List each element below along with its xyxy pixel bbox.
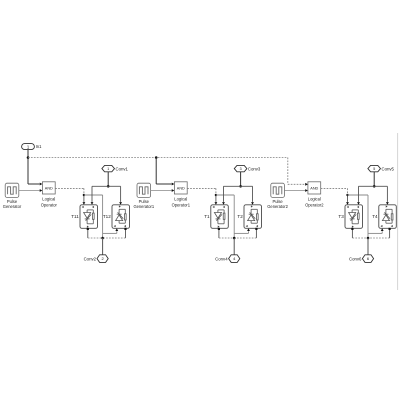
svg-text:Conv1: Conv1 <box>116 166 129 171</box>
pin arrow AND input 1 <box>40 183 43 186</box>
wire AND output gate net unit1 <box>55 188 84 202</box>
label Logical Operator2 <box>305 196 324 207</box>
wire bus down to Logical Operator2 dashed <box>287 158 289 185</box>
node gate junction unit3 <box>346 194 348 196</box>
pin arrow gate into T12 bottom <box>115 228 118 231</box>
svg-text:In1: In1 <box>36 144 42 149</box>
svg-text:Conv2: Conv2 <box>84 256 97 261</box>
wire Conv5 to T4 top <box>374 186 387 202</box>
node junction bottom rail unit2 <box>233 237 236 240</box>
wire In1 bus dashed horizontal <box>28 157 288 159</box>
wire T11 bottom to rail <box>87 230 89 238</box>
wire bus down to Logical Operator1 <box>155 158 157 185</box>
wire T3 bottom to rail <box>351 230 353 238</box>
pulse generator Pulse Generator2 <box>271 183 285 197</box>
wire bottom rail left unit2 <box>219 237 234 239</box>
wire gate branch to T4 <box>348 195 383 238</box>
pin arrow gate into T2 bottom <box>247 228 250 231</box>
wire Conv5 to T3 top <box>359 186 375 202</box>
wire T12 bottom to rail <box>125 230 127 238</box>
pin arrow gate into T11 <box>83 202 86 205</box>
wire Pulse Generator1 output to AND input 2 <box>151 190 172 192</box>
svg-text:Operator1: Operator1 <box>172 202 191 207</box>
svg-text:T2: T2 <box>237 214 243 219</box>
transistor T3 <box>345 205 363 229</box>
op-amp AND gate Logical Operator <box>42 182 55 194</box>
node junction Conv5 <box>373 185 376 188</box>
wire rail down to Conv2 <box>102 238 104 255</box>
wire In1 down to AND input <box>27 150 29 184</box>
svg-text:T11: T11 <box>71 214 79 219</box>
pin T2 port <box>255 228 257 230</box>
wire bottom rail left unit1 <box>88 237 103 239</box>
transistor T11 <box>80 205 98 229</box>
svg-text:Generator2: Generator2 <box>267 204 288 209</box>
pin T11 emitter port <box>87 228 89 230</box>
pin arrow gate into T4 bottom <box>381 228 384 231</box>
port Conv4 <box>229 255 240 263</box>
wire Pulse Generator output to AND input 2 <box>19 190 40 192</box>
pin arrow AND input 1 <box>172 183 175 186</box>
wire AND output gate net unit3 <box>321 188 348 202</box>
svg-text:Conv4: Conv4 <box>215 256 228 261</box>
wire gate branch to T2 <box>216 195 249 238</box>
label Pulse Generator <box>3 199 22 209</box>
wire T1 bottom to rail <box>218 230 220 238</box>
svg-text:Conv5: Conv5 <box>382 166 395 171</box>
label Pulse Generator2 <box>267 199 288 209</box>
wire bottom rail left unit3 <box>352 237 368 239</box>
wire Conv3 down <box>240 172 242 187</box>
pin T1 emitter port <box>218 228 220 230</box>
pin T12 port <box>124 228 126 230</box>
transistor T1 <box>211 205 229 229</box>
svg-text:T12: T12 <box>103 214 111 219</box>
svg-text:AND: AND <box>177 186 185 190</box>
node gate junction unit2 <box>215 194 217 196</box>
port Conv2 <box>97 255 108 263</box>
port Conv6 <box>362 255 373 263</box>
wire Conv1 down <box>107 172 109 187</box>
pulse generator Pulse Generator1 <box>137 183 151 197</box>
node junction Conv3 <box>239 185 242 188</box>
pin arrow gate into T1 <box>215 202 218 205</box>
wire Pulse Generator2 output to AND input 2 <box>284 190 305 192</box>
wire In1 to Logical Operator input 1 <box>28 183 39 185</box>
wire AND output gate net unit2 <box>187 188 216 202</box>
svg-text:AND: AND <box>310 186 318 190</box>
label Logical Operator <box>41 196 58 207</box>
wire T4 bottom to rail <box>389 230 391 238</box>
port Conv1 <box>102 165 115 171</box>
port Conv5 <box>368 165 381 171</box>
label Pulse Generator1 <box>133 199 154 209</box>
svg-text:Operator: Operator <box>41 202 58 207</box>
wire bottom rail right unit3 <box>368 237 390 239</box>
canvas edge line <box>397 133 399 290</box>
svg-text:Conv3: Conv3 <box>248 166 261 171</box>
svg-text:T1: T1 <box>204 214 210 219</box>
wire Conv1 to T11 top <box>92 186 108 202</box>
op-amp AND gate Logical Operator2 <box>308 182 321 194</box>
pulse generator Pulse Generator <box>5 183 19 197</box>
svg-text:Logical: Logical <box>308 196 321 201</box>
svg-text:Generator1: Generator1 <box>133 204 154 209</box>
label Logical Operator1 <box>172 196 191 207</box>
svg-text:3: 3 <box>240 167 242 171</box>
wire gate branch to T12 <box>84 195 117 238</box>
wire rail down to Conv6 <box>367 238 369 255</box>
node junction Conv1 <box>107 185 110 188</box>
svg-text:5: 5 <box>373 167 375 171</box>
node junction bottom rail unit3 <box>367 237 370 240</box>
svg-text:1: 1 <box>107 167 109 171</box>
wire Conv1 to T12 top <box>108 186 120 202</box>
port Conv3 <box>234 165 247 171</box>
wire rail down to Conv4 <box>233 238 235 255</box>
pin arrow gate into T3 <box>346 202 349 205</box>
wire Conv3 to T1 top <box>224 186 241 202</box>
svg-text:Generator: Generator <box>3 204 22 209</box>
wire bottom rail right unit2 <box>234 237 256 239</box>
pin T4 port <box>389 228 391 230</box>
pin T3 emitter port <box>351 228 353 230</box>
svg-text:Operator2: Operator2 <box>305 202 324 207</box>
node gate junction unit1 <box>83 194 85 196</box>
node junction bottom rail unit1 <box>101 237 104 240</box>
op-amp AND gate Logical Operator1 <box>174 182 187 194</box>
svg-text:Conv6: Conv6 <box>349 256 362 261</box>
wire T2 bottom to rail <box>255 230 257 238</box>
pin arrow AND input 1 <box>305 183 308 186</box>
svg-text:Logical: Logical <box>174 196 187 201</box>
transistor T4 <box>379 205 397 229</box>
svg-text:T3: T3 <box>338 214 344 219</box>
svg-text:T4: T4 <box>372 214 378 219</box>
inport In1 <box>22 144 35 150</box>
svg-text:AND: AND <box>45 186 53 190</box>
node junction In1 bus <box>27 156 30 159</box>
transistor T2 <box>244 205 262 229</box>
wire Conv3 to T2 top <box>241 186 253 202</box>
transistor T12 <box>112 205 130 229</box>
node junction bus to Logical Operator1 <box>155 156 158 159</box>
wire bottom rail right unit1 <box>103 237 126 239</box>
svg-text:Logical: Logical <box>42 196 55 201</box>
wire Conv5 down <box>373 172 375 187</box>
